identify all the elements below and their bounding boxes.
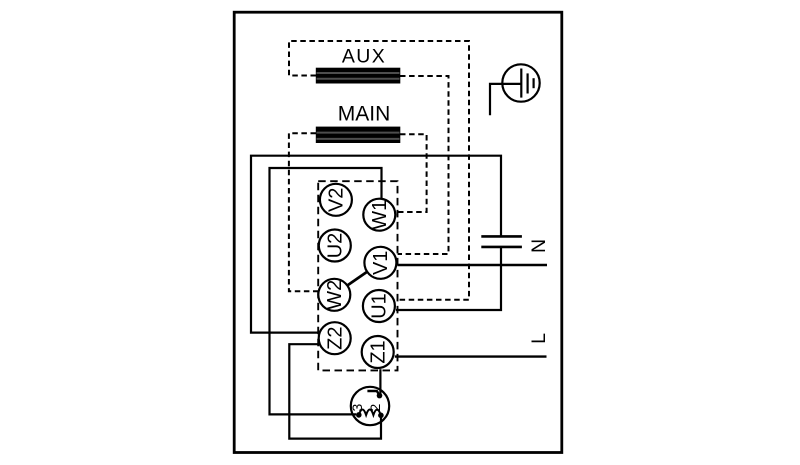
svg-text:W2: W2 xyxy=(324,280,346,310)
svg-text:MAIN: MAIN xyxy=(338,103,391,126)
svg-text:U1: U1 xyxy=(369,293,391,319)
svg-text:AUX: AUX xyxy=(342,46,386,68)
svg-text:W1: W1 xyxy=(369,200,391,230)
wire: dashed, AUX winding left end to terminal U1 (routed over top) xyxy=(289,41,469,300)
wire: solid, terminal U1 through capacitor, over top, down to terminal Z2 xyxy=(396,247,501,310)
svg-text:V1: V1 xyxy=(370,251,392,275)
wire: dashed, MAIN winding left end to terminal W2 xyxy=(289,133,318,291)
svg-text:N: N xyxy=(528,239,550,253)
wire: solid, terminal W1 top up-left-down to thermal protector pin 3 xyxy=(270,168,382,414)
svg-text:Z2: Z2 xyxy=(324,327,346,350)
pin 2 junction dot xyxy=(378,413,384,419)
svg-text:L: L xyxy=(528,333,550,344)
thermal protector (overload switch) xyxy=(349,387,389,425)
outer enclosure border xyxy=(234,12,562,452)
pin label 1 / switch arm xyxy=(367,391,379,395)
heater coil between pin 3 and pin 2 xyxy=(359,410,381,416)
terminal V1 xyxy=(364,247,396,279)
wire: solid, terminal V1 to line N xyxy=(398,264,548,266)
terminal block dashed outline xyxy=(318,181,397,370)
terminal U2 xyxy=(319,230,351,262)
capacitor C (run capacitor) xyxy=(481,236,522,247)
pin 1 junction dot xyxy=(377,393,383,399)
terminal V2 xyxy=(320,184,352,216)
terminal Z1 xyxy=(362,336,394,368)
terminal Z2 xyxy=(319,322,351,354)
wire: solid, terminal Z2 down around to thermal protector pin 2 xyxy=(289,344,381,438)
main winding MAIN (bar symbol) xyxy=(316,127,401,143)
svg-text:Z1: Z1 xyxy=(367,340,389,363)
pin 3 junction dot xyxy=(356,412,362,418)
wire: dashed, MAIN winding right end to terminal W1 xyxy=(396,134,426,212)
svg-text:U2: U2 xyxy=(324,233,346,259)
svg-text:V2: V2 xyxy=(326,188,348,212)
ground (protective earth) symbol xyxy=(490,64,540,115)
svg-text:2: 2 xyxy=(367,403,383,411)
wire: solid bridge, terminal W2 to terminal V1 xyxy=(347,272,368,287)
wire: solid, terminal Z1 to line L xyxy=(395,355,547,357)
terminal U1 xyxy=(363,290,395,322)
terminal W2 xyxy=(318,279,350,311)
auxiliary winding AUX (bar symbol) xyxy=(316,68,401,84)
wire: dashed, AUX winding right end to terminal V1 xyxy=(398,76,449,254)
svg-text:3: 3 xyxy=(349,403,365,411)
terminal W1 xyxy=(363,199,395,231)
wire: solid, terminal Z1 down to thermal protector pin 1 xyxy=(379,369,381,395)
